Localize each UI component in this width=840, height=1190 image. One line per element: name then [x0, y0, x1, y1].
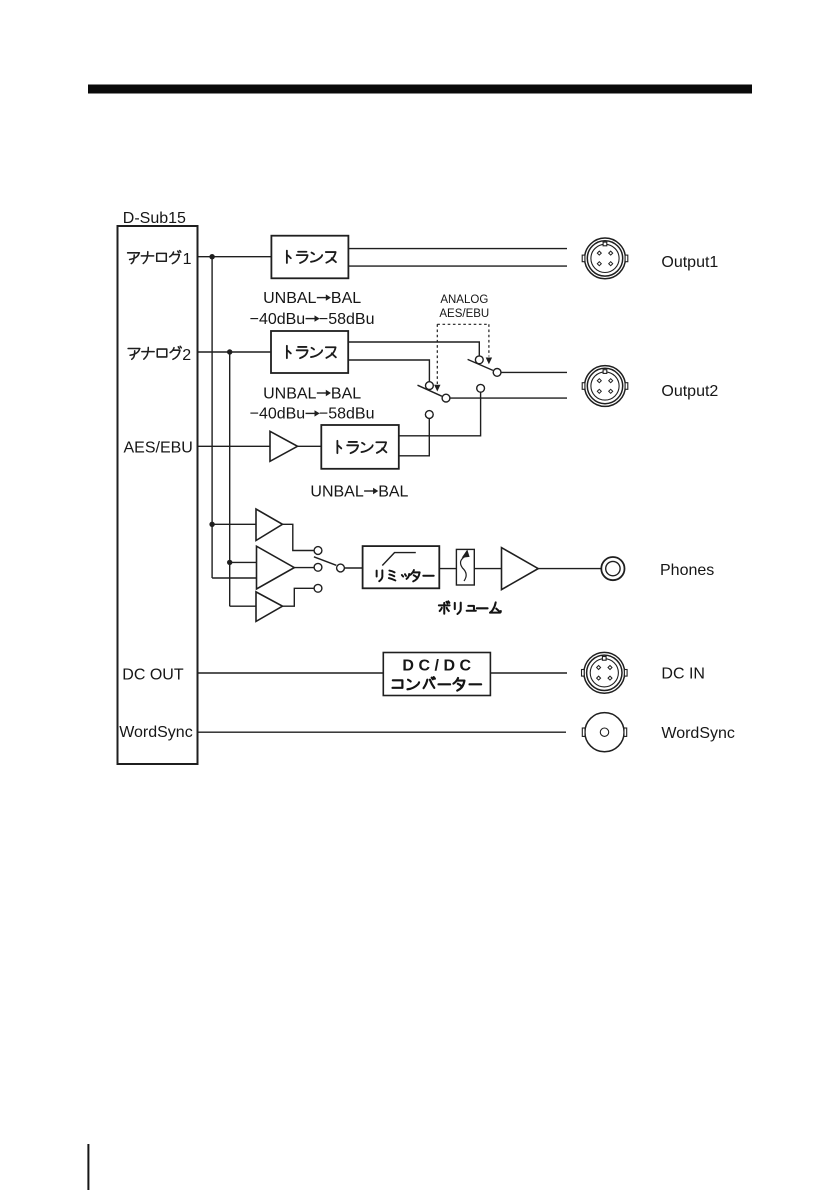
wire analog1 bus vertical: [212, 257, 256, 578]
svg-text:WordSync: WordSync: [661, 725, 735, 742]
svg-text:DC OUT: DC OUT: [122, 667, 184, 684]
switch SW2 lever: [418, 385, 442, 396]
label volume: [439, 601, 501, 614]
switch SW2 pole: [442, 394, 450, 402]
svg-text:ANALOG: ANALOG: [440, 294, 488, 306]
svg-text:UNBAL: UNBAL: [263, 290, 316, 307]
AES buffer amp: [270, 431, 298, 461]
connector block D-Sub15: [118, 226, 198, 764]
connector DC IN: [582, 652, 628, 693]
wire T1 output bottom to Output1: [348, 265, 567, 267]
wire volume to phones amp: [474, 568, 501, 570]
wire pole to limiter: [344, 567, 362, 569]
svg-text:AES/EBU: AES/EBU: [124, 440, 193, 457]
switch SW1 pole: [493, 369, 501, 377]
arrowhead left: [434, 385, 440, 392]
connector Output2: [582, 366, 628, 407]
page edge mark bottom left: [87, 1144, 89, 1190]
wire analog2 to transformer T2: [198, 351, 272, 353]
volume arrow icon: [461, 557, 467, 582]
wire T2 output top to switch SW1: [348, 342, 479, 356]
wire T3 output top to SW1 AES contact: [399, 392, 481, 436]
phones selector contact bottom: [314, 584, 322, 592]
wire AES/EBU input: [198, 445, 271, 447]
headphone amp bottom: [256, 592, 283, 622]
svg-text:−40dBu: −40dBu: [250, 406, 306, 423]
header rule bar: [88, 85, 752, 94]
volume attenuator box: [456, 549, 474, 585]
svg-text:BAL: BAL: [331, 290, 361, 307]
svg-text:DC IN: DC IN: [661, 665, 705, 682]
phones jack: [601, 557, 624, 580]
arrowhead right: [486, 358, 492, 365]
transformer T2 box: [271, 331, 348, 373]
wire converter to DC IN: [490, 672, 567, 674]
node phones mid junction: [227, 560, 232, 565]
svg-text:1: 1: [183, 251, 192, 268]
wire analog1 to transformer T1: [198, 256, 272, 258]
svg-text:Output2: Output2: [661, 383, 718, 400]
svg-text:2: 2: [182, 347, 191, 364]
svg-text:Phones: Phones: [660, 562, 714, 579]
connector WordSync BNC: [582, 713, 626, 752]
node phones top junction: [209, 522, 214, 527]
limiter box: [363, 546, 440, 588]
DC/DC converter box: [383, 653, 490, 696]
node analog2 junction: [227, 349, 232, 354]
wire T3 output bottom to SW2 AES contact: [399, 418, 430, 455]
limiter curve icon: [382, 553, 416, 566]
svg-text:UNBAL: UNBAL: [310, 483, 363, 500]
svg-text:UNBAL: UNBAL: [263, 385, 316, 402]
phones selector pole: [337, 564, 345, 572]
pin label analog1: [128, 251, 181, 264]
wire limiter to volume: [439, 568, 456, 570]
svg-text:AES/EBU: AES/EBU: [439, 308, 489, 320]
switch SW2 contact ANALOG: [426, 382, 434, 390]
wire SW1 pole to Output2 top: [501, 371, 567, 373]
switch SW1 contact ANALOG: [475, 356, 483, 364]
wire mid amp to selector: [294, 567, 314, 569]
svg-text:DC/DC: DC/DC: [402, 658, 475, 675]
transformer T1 box: [271, 236, 348, 279]
connector Output1: [582, 238, 628, 279]
phones selector contact top: [314, 547, 322, 555]
wire SW2 pole to Output2 bottom: [450, 397, 567, 399]
svg-text:BAL: BAL: [331, 385, 361, 402]
label converter: [393, 677, 482, 690]
svg-text:D-Sub15: D-Sub15: [123, 210, 186, 227]
svg-text:Output1: Output1: [661, 254, 718, 271]
wire T1 output top to Output1: [348, 248, 567, 250]
wire analog2 bus vertical: [230, 352, 256, 606]
wire T2 output bottom to switch SW2: [348, 360, 429, 382]
switch SW1 contact AES: [477, 384, 485, 392]
phones amp: [502, 548, 539, 590]
wire bottom amp to selector: [283, 588, 315, 606]
pin label analog2: [128, 346, 181, 359]
wire buffer to T3: [298, 445, 322, 447]
headphone amp top: [256, 509, 283, 541]
svg-text:BAL: BAL: [378, 483, 408, 500]
svg-text:−58dBu: −58dBu: [319, 406, 375, 423]
node analog1 junction: [209, 254, 214, 259]
svg-text:−40dBu: −40dBu: [250, 311, 306, 328]
wire phones amp to jack: [538, 568, 601, 570]
wire top amp to selector: [283, 524, 315, 550]
wire top headphone amp input: [212, 523, 256, 525]
transformer T3 box: [321, 425, 399, 469]
wire WordSync: [198, 731, 567, 733]
svg-text:WordSync: WordSync: [119, 724, 193, 741]
phones selector contact mid: [314, 563, 322, 571]
switch SW1 lever: [468, 359, 493, 370]
svg-text:−58dBu: −58dBu: [319, 311, 375, 328]
dashed control line: [437, 324, 489, 384]
wire middle headphone amp input: [230, 561, 257, 563]
wire DC OUT to converter: [198, 672, 384, 674]
switch SW2 contact AES: [425, 411, 433, 419]
headphone amp middle: [257, 546, 295, 589]
phones selector lever: [314, 557, 336, 566]
